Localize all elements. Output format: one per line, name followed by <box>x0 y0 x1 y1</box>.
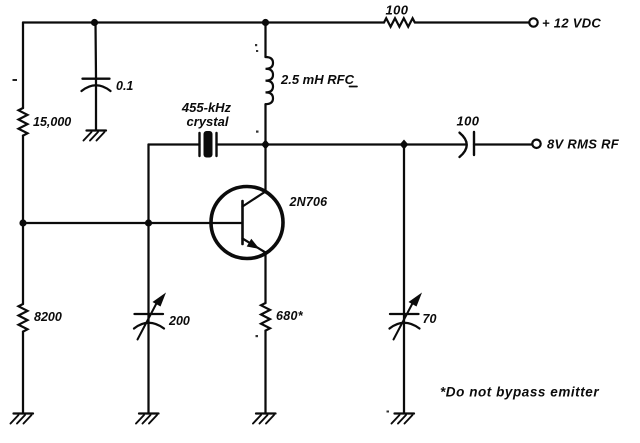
capacitor C2 100 (coupling) <box>460 132 475 157</box>
terminal +12VDC circle <box>529 18 537 26</box>
stray mark under C of RFC <box>350 86 358 88</box>
svg-text:2N706: 2N706 <box>289 195 329 209</box>
svg-text:2.5 mH RFC: 2.5 mH RFC <box>280 72 355 87</box>
svg-text:8V RMS RF: 8V RMS RF <box>547 137 620 152</box>
scan speck <box>256 50 258 52</box>
wire left rail lower <box>22 223 24 304</box>
resistor R2 15,000 <box>19 108 28 136</box>
resistor R4 680 <box>261 303 270 331</box>
ground (R4) <box>253 414 276 424</box>
wire C1 to ground <box>95 79 97 130</box>
node junction collector net (diamond) <box>261 140 270 150</box>
wire left rail to ground <box>22 332 24 414</box>
ground (C3) <box>136 414 159 424</box>
scan speck <box>255 44 257 46</box>
svg-text:455-kHz: 455-kHz <box>181 100 232 115</box>
ground (left rail) <box>11 414 34 424</box>
wire cap to output terminal <box>474 143 532 145</box>
wire C1 branch upper <box>94 23 97 79</box>
node junction base-line left <box>19 219 26 226</box>
wire output line <box>266 143 467 145</box>
wire emitter resistor to ground <box>264 331 266 414</box>
wire left rail middle <box>22 136 24 223</box>
scan speck <box>256 131 259 133</box>
wire base line <box>23 222 243 224</box>
wire crystal branch vertical <box>147 145 149 224</box>
inductor L1 2.5 mH RFC <box>266 57 274 104</box>
svg-text:70: 70 <box>423 312 437 326</box>
svg-text:100: 100 <box>386 3 409 18</box>
terminal 8V RMS RF circle <box>532 140 540 148</box>
node junction base-line crystal branch <box>145 219 152 226</box>
crystal Y1 455 kHz <box>200 131 217 158</box>
capacitor C1 0.1 <box>82 79 111 91</box>
wire crystal branch to ground <box>147 223 149 414</box>
svg-text:crystal: crystal <box>187 114 229 129</box>
ground (C4) <box>392 414 415 424</box>
resistor R1 100 (top) <box>384 18 415 26</box>
svg-text:680*: 680* <box>276 309 304 323</box>
svg-text:100: 100 <box>457 114 480 129</box>
svg-text:8200: 8200 <box>34 310 62 324</box>
svg-text:200: 200 <box>168 314 190 328</box>
svg-text:*Do not bypass emitter: *Do not bypass emitter <box>440 385 599 400</box>
svg-text:0.1: 0.1 <box>116 79 133 93</box>
wire output branch vertical <box>403 145 405 414</box>
variable capacitor C4 70 <box>390 293 423 340</box>
scan speck <box>387 411 390 413</box>
ground (below C1) <box>84 131 107 141</box>
node junction top at RFC branch <box>262 19 269 26</box>
wire crystal right lead <box>217 143 266 145</box>
wire crystal left lead <box>149 143 200 145</box>
wire top rail left segment <box>23 21 384 23</box>
wire collector vertical <box>264 145 266 192</box>
wire RFC upper lead <box>264 23 266 58</box>
variable capacitor C3 200 <box>134 293 166 340</box>
wire emitter vertical <box>264 253 266 304</box>
transistor Q1 2N706 <box>211 187 283 259</box>
wire top rail right segment <box>415 21 529 23</box>
scan speck <box>256 335 259 337</box>
svg-text:15,000: 15,000 <box>33 115 71 129</box>
wire left rail upper <box>22 23 24 109</box>
svg-text:+ 12 VDC: + 12 VDC <box>542 16 601 31</box>
node junction top at C1 branch <box>91 19 98 26</box>
wire RFC to collector node <box>264 104 266 144</box>
resistor R3 8200 <box>19 304 28 332</box>
scan speck <box>13 79 18 81</box>
node junction output branch (diamond) <box>400 140 409 150</box>
